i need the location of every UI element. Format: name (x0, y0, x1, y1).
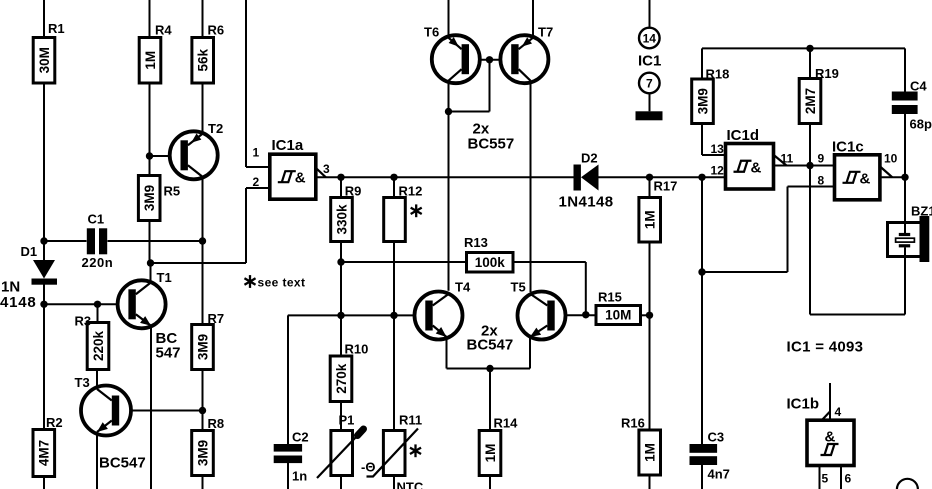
svg-text:7: 7 (646, 77, 653, 91)
svg-text:10M: 10M (605, 308, 631, 323)
svg-text:4n7: 4n7 (708, 467, 730, 482)
svg-text:2: 2 (253, 175, 260, 189)
svg-text:T5: T5 (511, 280, 526, 295)
svg-text:56k: 56k (196, 48, 211, 71)
svg-text:R3: R3 (75, 314, 92, 329)
svg-text:3M9: 3M9 (195, 334, 210, 360)
svg-text:R1: R1 (48, 21, 65, 36)
svg-text:R13: R13 (464, 235, 488, 250)
svg-text:&: & (860, 170, 871, 187)
svg-text:68p: 68p (910, 117, 932, 132)
svg-text:BC557: BC557 (468, 136, 515, 153)
svg-text:8: 8 (818, 174, 825, 188)
svg-text:1N: 1N (1, 279, 20, 296)
svg-text:12: 12 (711, 164, 725, 178)
svg-text:R6: R6 (208, 23, 225, 38)
svg-text:R18: R18 (706, 67, 730, 82)
svg-text:P1: P1 (339, 413, 355, 428)
svg-text:1M: 1M (643, 210, 658, 229)
svg-text:R4: R4 (155, 23, 172, 38)
svg-text:BZ1: BZ1 (911, 204, 932, 219)
svg-text:R12: R12 (399, 184, 423, 199)
svg-text:100k: 100k (475, 255, 506, 270)
svg-text:T1: T1 (157, 270, 172, 285)
svg-text:T4: T4 (455, 280, 471, 295)
svg-text:C1: C1 (88, 212, 105, 227)
svg-text:D1: D1 (21, 244, 38, 259)
svg-text:IC1 = 4093: IC1 = 4093 (787, 339, 864, 356)
svg-text:R16: R16 (621, 416, 645, 431)
svg-text:BC547: BC547 (467, 337, 514, 354)
svg-text:1M: 1M (643, 443, 658, 462)
svg-text:11: 11 (781, 152, 794, 166)
svg-text:-Θ: -Θ (361, 460, 375, 475)
svg-text:4M7: 4M7 (37, 440, 52, 466)
svg-text:3M9: 3M9 (142, 185, 157, 211)
svg-text:C4: C4 (910, 79, 927, 94)
svg-text:220n: 220n (82, 255, 114, 270)
svg-text:14: 14 (643, 32, 657, 46)
svg-text:T6: T6 (424, 25, 439, 40)
svg-text:1n: 1n (292, 469, 307, 484)
svg-text:C2: C2 (292, 430, 309, 445)
svg-text:3: 3 (323, 162, 330, 176)
svg-text:4148: 4148 (0, 294, 37, 311)
svg-text:547: 547 (156, 345, 181, 362)
svg-text:R7: R7 (208, 311, 225, 326)
svg-text:30M: 30M (37, 47, 52, 73)
svg-text:T7: T7 (538, 25, 553, 40)
svg-text:D2: D2 (581, 151, 598, 166)
svg-text:NTC: NTC (397, 480, 424, 489)
svg-text:2M7: 2M7 (803, 88, 818, 114)
svg-text:R19: R19 (815, 66, 839, 81)
svg-text:R11: R11 (399, 413, 422, 428)
svg-text:IC1a: IC1a (272, 137, 304, 154)
svg-text:9: 9 (818, 152, 825, 166)
svg-text:T2: T2 (208, 121, 223, 136)
svg-text:3M9: 3M9 (195, 440, 210, 466)
svg-text:1N4148: 1N4148 (559, 194, 614, 211)
svg-text:&: & (295, 170, 306, 187)
svg-text:R9: R9 (345, 184, 362, 199)
svg-text:R14: R14 (494, 416, 519, 431)
svg-text:330k: 330k (334, 204, 349, 235)
svg-text:13: 13 (711, 142, 725, 156)
svg-text:R15: R15 (598, 290, 622, 305)
svg-text:T3: T3 (75, 375, 90, 390)
svg-text:R8: R8 (208, 416, 225, 431)
svg-text:BC547: BC547 (99, 455, 146, 472)
svg-text:C3: C3 (708, 430, 725, 445)
svg-text:6: 6 (845, 472, 852, 486)
svg-text:IC1b: IC1b (787, 396, 820, 413)
svg-text:220k: 220k (91, 330, 106, 361)
svg-text:3M9: 3M9 (695, 88, 710, 114)
svg-text:IC1d: IC1d (727, 127, 760, 144)
svg-text:R10: R10 (345, 342, 369, 357)
svg-text:see text: see text (258, 276, 306, 290)
svg-text:R17: R17 (654, 179, 678, 194)
svg-text:R2: R2 (46, 415, 63, 430)
svg-text:1M: 1M (483, 444, 498, 463)
svg-text:1: 1 (253, 146, 260, 160)
svg-text:&: & (751, 159, 762, 176)
svg-text:R5: R5 (164, 184, 181, 199)
svg-text:5: 5 (822, 472, 829, 486)
svg-text:270k: 270k (334, 363, 349, 394)
svg-text:10: 10 (884, 152, 898, 166)
svg-text:1M: 1M (143, 51, 158, 70)
svg-text:IC1: IC1 (638, 53, 661, 70)
svg-text:IC1c: IC1c (832, 139, 864, 156)
svg-text:4: 4 (835, 405, 842, 419)
